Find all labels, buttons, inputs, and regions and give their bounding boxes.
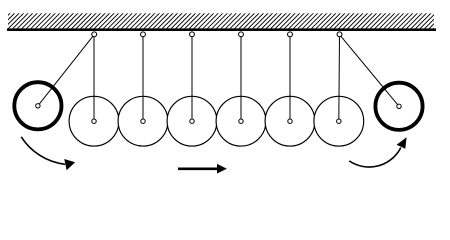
node pivot 5 bbox=[288, 32, 293, 37]
right swung ball (thick) bbox=[375, 83, 422, 130]
ball 2 bbox=[118, 96, 168, 146]
wire: string ball 5 bbox=[289, 35, 291, 122]
node ball 2 center bbox=[141, 119, 145, 123]
velocity arrow bbox=[178, 164, 227, 174]
node ball 6 center bbox=[337, 119, 341, 123]
node right ball center bbox=[397, 104, 401, 108]
wire: string right ball to pivot 6 bbox=[340, 35, 400, 107]
ceiling line bbox=[7, 28, 436, 31]
wire: string ball 3 bbox=[191, 35, 193, 122]
wire: string left ball to pivot 1 bbox=[38, 35, 94, 106]
wire: string ball 4 bbox=[240, 35, 242, 122]
node pivot 4 bbox=[239, 32, 244, 37]
wire: string ball 2 bbox=[142, 35, 144, 122]
ball 4 bbox=[216, 96, 266, 146]
node pivot 3 bbox=[190, 32, 195, 37]
node ball 5 center bbox=[288, 119, 292, 123]
node pivot 6 bbox=[337, 32, 342, 37]
node left ball center bbox=[36, 104, 40, 108]
node pivot 2 bbox=[141, 32, 146, 37]
wire: string ball 1 bbox=[93, 35, 95, 122]
ball 5 bbox=[265, 96, 315, 146]
node pivot 1 bbox=[92, 32, 97, 37]
ball 1 bbox=[69, 96, 119, 146]
ceiling hatched band bbox=[8, 13, 434, 28]
node ball 3 center bbox=[190, 119, 194, 123]
left swing arc arrow bbox=[21, 137, 75, 171]
right swing arc arrow bbox=[349, 137, 406, 167]
ball 6 bbox=[314, 96, 364, 146]
wire: string ball 6 bbox=[338, 35, 341, 122]
node ball 1 center bbox=[92, 119, 96, 123]
left swung ball (thick) bbox=[14, 82, 61, 129]
ball 3 bbox=[167, 96, 217, 146]
node ball 4 center bbox=[239, 119, 243, 123]
